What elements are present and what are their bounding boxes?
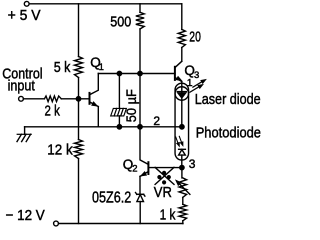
label Control input bbox=[2, 66, 42, 95]
node capacitor top bbox=[117, 71, 121, 75]
capacitor 50uF bbox=[111, 89, 139, 122]
svg-text:3: 3 bbox=[189, 157, 196, 171]
ground bbox=[17, 127, 31, 142]
svg-text:VR: VR bbox=[154, 185, 172, 201]
label +5V bbox=[8, 7, 41, 24]
laser diode LD symbol bbox=[177, 87, 186, 127]
terminal +5V bbox=[24, 1, 29, 6]
svg-text:5 k: 5 k bbox=[54, 60, 71, 76]
svg-text:20: 20 bbox=[189, 30, 201, 46]
terminal control input bbox=[19, 96, 24, 101]
svg-text:12 k: 12 k bbox=[47, 143, 73, 159]
transistor Q1 bbox=[90, 55, 104, 127]
wire 12k to -12V rail bbox=[78, 159, 80, 224]
transistor Q3 bbox=[175, 61, 199, 87]
wire 20 to Q3 collector bbox=[181, 48, 183, 62]
svg-text:− 12 V: − 12 V bbox=[6, 207, 45, 224]
resistor 5k bbox=[54, 57, 83, 78]
wire top rail corner down to 20 bbox=[181, 4, 183, 30]
resistor 500 bbox=[110, 12, 144, 30]
svg-text:50 µF: 50 µF bbox=[123, 89, 139, 122]
node base junction bbox=[76, 97, 80, 101]
wire 2k to Q1 base bbox=[61, 98, 89, 100]
laser diode / photodiode package capsule bbox=[175, 83, 189, 160]
resistor 20 bbox=[178, 29, 201, 47]
svg-text:3: 3 bbox=[194, 70, 199, 81]
wire 5k to base node bbox=[78, 78, 80, 99]
svg-text:Photodiode: Photodiode bbox=[196, 124, 261, 141]
svg-text:+ 5 V: + 5 V bbox=[8, 7, 41, 24]
node 500-line bottom / Q2 collector bbox=[138, 125, 142, 129]
wire from top rail down to 5k bbox=[78, 4, 80, 57]
laser diode circle bbox=[175, 87, 189, 101]
zener diode 05Z6.2 bbox=[92, 190, 145, 207]
wire input terminal to 2k bbox=[23, 98, 44, 100]
label VR bbox=[154, 185, 172, 201]
resistor 12k bbox=[47, 140, 82, 159]
photodiode incident light arrows bbox=[176, 136, 183, 146]
wire VR to 1k bbox=[182, 197, 184, 204]
label pin 3 bbox=[189, 157, 196, 171]
svg-text:05Z6.2: 05Z6.2 bbox=[92, 190, 131, 207]
svg-text:1 k: 1 k bbox=[160, 207, 176, 223]
wire from top rail to 500 bbox=[139, 4, 141, 13]
wire capacitor branch lower bbox=[118, 116, 120, 127]
svg-text:2: 2 bbox=[153, 114, 160, 128]
label Laser diode bbox=[195, 91, 261, 108]
svg-text:500: 500 bbox=[110, 15, 131, 31]
wire Q1 collector to Q3 base bbox=[98, 73, 175, 75]
svg-text:1: 1 bbox=[99, 62, 104, 73]
svg-text:2 k: 2 k bbox=[45, 104, 61, 120]
wire zener to -12V rail bbox=[139, 202, 141, 224]
svg-text:2: 2 bbox=[132, 164, 137, 175]
node pin 3 bbox=[180, 165, 184, 169]
transistor Q2 bbox=[123, 127, 149, 194]
variable resistor VR bbox=[176, 178, 190, 198]
wire pin 3 to VR bbox=[181, 168, 183, 178]
laser emission arrows bbox=[190, 80, 205, 92]
wire 500-line between nodes bbox=[139, 74, 141, 127]
label Photodiode bbox=[196, 124, 261, 141]
wire 500 down to node bbox=[139, 29, 141, 74]
svg-text:input: input bbox=[8, 78, 36, 95]
label pin 1 bbox=[187, 77, 193, 89]
node capacitor bottom bbox=[117, 125, 121, 129]
wire 1k to -12V rail bbox=[182, 221, 184, 224]
label pin 2 bbox=[153, 114, 160, 128]
photodiode symbol bbox=[179, 149, 186, 167]
resistor 2k bbox=[44, 96, 61, 120]
wire ground rail (signal ground to pin 2) bbox=[25, 126, 182, 128]
svg-text:Laser diode: Laser diode bbox=[195, 91, 261, 108]
wire capacitor branch upper bbox=[118, 74, 120, 109]
terminal -12V bbox=[54, 221, 59, 226]
wire +5V top rail bbox=[29, 3, 182, 5]
wire Q2 base to pin 3 node bbox=[148, 167, 182, 169]
node pin 2 common bbox=[180, 125, 184, 129]
node 500-line top bbox=[138, 71, 142, 75]
wire base node down to 12k (crosses ground wire) bbox=[78, 99, 80, 140]
wire -12V bottom rail bbox=[58, 223, 183, 225]
adjustment X mark with dots bbox=[155, 167, 174, 184]
label -12V bbox=[6, 207, 45, 224]
resistor 1k bbox=[160, 204, 187, 223]
